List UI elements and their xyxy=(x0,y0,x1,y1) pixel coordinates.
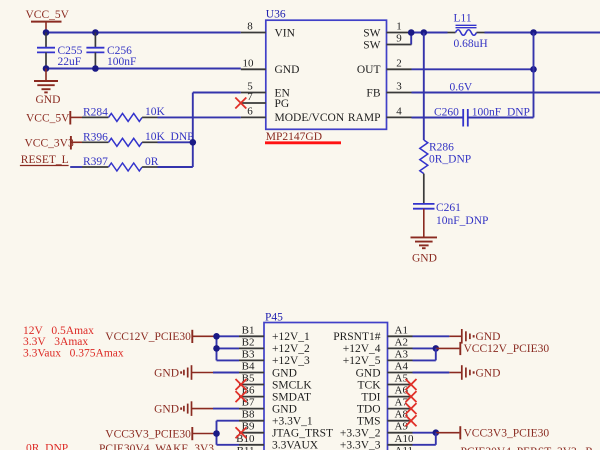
svg-text:VCC3V3_PCIE30: VCC3V3_PCIE30 xyxy=(464,428,550,440)
P45 pin A9 xyxy=(340,421,413,440)
svg-text:PRSNT1#: PRSNT1# xyxy=(333,331,381,343)
wire A9 xyxy=(413,432,436,434)
wire B10 xyxy=(217,444,240,446)
svg-text:A11: A11 xyxy=(395,445,414,450)
svg-text:0R_DNP: 0R_DNP xyxy=(26,443,68,450)
capacitor C255 xyxy=(37,33,83,69)
P45 pin A2 xyxy=(343,336,413,355)
power port GND (A1) xyxy=(449,329,500,344)
svg-text:GND: GND xyxy=(154,367,179,379)
svg-text:JTAG_TRST: JTAG_TRST xyxy=(272,428,333,440)
svg-text:10nF_DNP: 10nF_DNP xyxy=(436,215,488,227)
capacitor C260 xyxy=(434,107,530,127)
wire FB to right edge xyxy=(412,92,600,94)
svg-text:1: 1 xyxy=(396,21,402,33)
junction dot xyxy=(43,65,50,72)
svg-text:+3.3V_3: +3.3V_3 xyxy=(340,440,381,450)
svg-text:GND: GND xyxy=(154,403,179,415)
wire A4 xyxy=(413,372,450,374)
svg-text:3.3Vaux 0.375Amax: 3.3Vaux 0.375Amax xyxy=(23,348,124,360)
svg-text:3: 3 xyxy=(396,81,402,93)
P45 pin B4 xyxy=(239,361,297,380)
svg-text:R396: R396 xyxy=(83,132,108,144)
P45 pin B3 xyxy=(239,348,310,367)
svg-text:0.68uH: 0.68uH xyxy=(454,38,488,50)
svg-text:VCC12V_PCIE30: VCC12V_PCIE30 xyxy=(464,343,550,355)
wire A3 xyxy=(413,359,436,361)
svg-text:SMCLK: SMCLK xyxy=(272,379,312,391)
svg-text:VCC_5V: VCC_5V xyxy=(26,9,70,21)
U36 pin 1 SW xyxy=(363,21,411,40)
svg-text:12V 0.5Amax: 12V 0.5Amax xyxy=(23,325,94,337)
no-connect X on A7 xyxy=(406,403,417,414)
junction dot xyxy=(213,345,220,352)
svg-text:A6: A6 xyxy=(395,385,409,397)
P45 pin B1 xyxy=(239,324,310,343)
junction dot xyxy=(213,333,220,340)
U36 pin 6 MODE/VCON xyxy=(241,105,345,124)
wire GND bottom rail xyxy=(46,68,241,70)
svg-text:3.3V 3Amax: 3.3V 3Amax xyxy=(23,336,88,348)
U36 pin 7 PG xyxy=(241,91,289,110)
svg-text:B1: B1 xyxy=(242,324,255,336)
svg-text:C261: C261 xyxy=(436,202,461,214)
resistor R397 xyxy=(70,156,159,171)
svg-text:SMDAT: SMDAT xyxy=(272,391,311,403)
wire SW down to R286 xyxy=(423,33,425,141)
svg-text:SW: SW xyxy=(363,27,380,39)
svg-text:VIN: VIN xyxy=(275,27,296,39)
P45 pin B6 xyxy=(239,385,311,404)
U36 pin 5 EN xyxy=(241,81,291,100)
no-connect X on A8 xyxy=(406,415,417,426)
P45 pin B8 xyxy=(239,409,313,428)
inductor L11 xyxy=(448,12,488,50)
svg-text:+12V_4: +12V_4 xyxy=(343,343,381,355)
svg-text:RAMP: RAMP xyxy=(348,112,381,124)
svg-text:B11: B11 xyxy=(237,445,255,450)
svg-text:SW: SW xyxy=(363,39,380,51)
wire C260 to output branch xyxy=(468,117,534,119)
svg-text:FB: FB xyxy=(366,87,380,99)
svg-text:TDO: TDO xyxy=(357,403,381,415)
P45 pin A1 xyxy=(333,324,412,343)
wire pin9 to pin1 loop xyxy=(410,33,412,45)
wire B2 xyxy=(217,347,240,349)
ground GND (snubber) xyxy=(411,237,438,264)
svg-text:+12V_1: +12V_1 xyxy=(272,331,310,343)
svg-text:R397: R397 xyxy=(83,156,108,168)
wire EN vertical xyxy=(192,93,194,168)
svg-text:A3: A3 xyxy=(395,348,409,360)
junction dot xyxy=(213,430,220,437)
junction dot xyxy=(92,65,99,72)
P45 pin B7 xyxy=(239,397,297,416)
wire EN to pin 5 xyxy=(193,92,241,94)
resistor R396 xyxy=(82,131,194,146)
svg-text:A1: A1 xyxy=(395,324,408,336)
P45 pin B5 xyxy=(239,373,312,392)
wire L11 to right edge xyxy=(485,32,600,34)
P45 pin B10 xyxy=(236,433,319,450)
wire R286 to C261 xyxy=(423,174,425,204)
wire vertical output branch xyxy=(533,33,535,118)
wire B1-B3 bus xyxy=(216,336,218,360)
junction dot xyxy=(433,345,440,352)
svg-text:PG: PG xyxy=(275,98,290,110)
svg-text:+12V_5: +12V_5 xyxy=(343,355,381,367)
junction dot xyxy=(408,29,415,36)
ground GND (top left) xyxy=(34,69,60,107)
svg-text:GND: GND xyxy=(476,367,501,379)
svg-text:R286: R286 xyxy=(429,142,454,154)
no-connect X on A6 xyxy=(406,391,417,402)
P45 pin A11 (clipped) xyxy=(395,445,414,450)
wire B3 xyxy=(217,359,240,361)
svg-text:A10: A10 xyxy=(395,433,414,445)
svg-text:VCC3V3_PCIE30: VCC3V3_PCIE30 xyxy=(105,428,191,440)
wire B4 xyxy=(213,372,239,374)
svg-text:+12V_2: +12V_2 xyxy=(272,343,310,355)
svg-text:0.6V: 0.6V xyxy=(450,82,473,94)
power port VCC_5V (R284) xyxy=(26,111,82,125)
svg-text:2: 2 xyxy=(396,57,402,69)
svg-text:100nF: 100nF xyxy=(107,56,136,68)
wire A2 xyxy=(413,347,436,349)
svg-text:6: 6 xyxy=(247,105,253,117)
wire R396 to EN node xyxy=(158,141,193,143)
power port VCC_3V3 xyxy=(25,136,83,150)
svg-text:RESET_L: RESET_L xyxy=(21,154,69,166)
svg-text:+12V_3: +12V_3 xyxy=(272,355,310,367)
junction dot xyxy=(421,29,428,36)
U36 pin 2 OUT xyxy=(357,57,412,76)
power port VCC_5V (top) xyxy=(26,9,70,33)
svg-text:9: 9 xyxy=(396,33,402,45)
capacitor C261 xyxy=(413,202,488,227)
connector P45 body xyxy=(264,311,388,450)
wire pin4 to C260 xyxy=(412,117,464,119)
no-connect X on pin 7 xyxy=(235,98,246,109)
svg-text:GND: GND xyxy=(272,403,297,415)
svg-text:P45: P45 xyxy=(265,311,283,323)
svg-text:7: 7 xyxy=(247,91,253,103)
P45 pin A5 xyxy=(358,373,413,392)
no-connect X on B9 xyxy=(236,427,247,438)
U36 pin 10 GND xyxy=(241,57,300,76)
svg-text:MODE/VCON: MODE/VCON xyxy=(275,112,345,124)
svg-text:GND: GND xyxy=(476,331,501,343)
capacitor C256 xyxy=(86,33,136,69)
svg-text:3.3VAUX: 3.3VAUX xyxy=(272,440,319,450)
U36 pin 3 FB xyxy=(366,81,411,100)
svg-text:MP2147GD: MP2147GD xyxy=(266,131,322,143)
P45 pin A4 xyxy=(356,361,413,380)
svg-text:0R: 0R xyxy=(145,156,159,168)
junction dot xyxy=(190,139,197,146)
svg-text:22uF: 22uF xyxy=(58,56,82,68)
svg-text:L11: L11 xyxy=(454,12,472,24)
wire R284 to pin 6 xyxy=(158,116,241,118)
power port VCC12V_PCIE30 (right) xyxy=(436,342,550,355)
svg-text:GND: GND xyxy=(272,367,297,379)
wire A2-A3 bus xyxy=(435,348,437,360)
svg-text:8: 8 xyxy=(247,21,253,33)
junction dot xyxy=(43,29,50,36)
svg-text:10: 10 xyxy=(243,57,255,69)
svg-text:GND: GND xyxy=(412,253,437,265)
junction dot xyxy=(530,29,537,36)
wire B8-B10 bus xyxy=(216,421,218,445)
svg-text:+3.3V_1: +3.3V_1 xyxy=(272,416,313,428)
P45 pin A7 xyxy=(357,397,413,416)
wire B1 xyxy=(217,335,240,337)
svg-text:10K DNP: 10K DNP xyxy=(145,131,194,143)
U36 pin 8 VIN xyxy=(241,21,296,40)
P45 pin A8 xyxy=(357,409,413,428)
power port VCC12V_PCIE30 (left) xyxy=(105,330,215,343)
wire C261 to ground xyxy=(423,209,425,238)
wire A10 xyxy=(413,444,436,446)
svg-text:TCK: TCK xyxy=(358,379,382,391)
svg-text:VCC_5V: VCC_5V xyxy=(26,113,70,125)
svg-text:A9: A9 xyxy=(395,421,409,433)
no-connect X on A5 xyxy=(406,379,417,390)
svg-text:0R_DNP: 0R_DNP xyxy=(429,154,471,166)
svg-text:U36: U36 xyxy=(266,8,286,20)
resistor R284 xyxy=(82,106,166,121)
svg-text:GND: GND xyxy=(275,64,300,76)
svg-text:OUT: OUT xyxy=(357,64,381,76)
wire B7 xyxy=(213,408,239,410)
wire R397 to EN vertical xyxy=(158,166,193,168)
power port GND (B7) xyxy=(154,401,213,416)
svg-text:B3: B3 xyxy=(242,348,255,360)
svg-text:A7: A7 xyxy=(395,397,409,409)
svg-text:4: 4 xyxy=(396,105,402,117)
svg-text:A2: A2 xyxy=(395,336,408,348)
power port GND (A4) xyxy=(449,365,500,380)
P45 pin A10 xyxy=(340,433,414,450)
svg-text:PCIE30V4_PERST 3V3 R: PCIE30V4_PERST 3V3 R xyxy=(461,446,594,450)
power port GND (B4) xyxy=(154,365,213,380)
power port VCC3V3_PCIE30 (left) xyxy=(105,427,215,440)
svg-text:GND: GND xyxy=(36,94,61,106)
P45 pin B9 xyxy=(239,421,333,440)
svg-text:R284: R284 xyxy=(83,107,108,119)
svg-text:GND: GND xyxy=(356,367,381,379)
wire SW rail xyxy=(411,32,447,34)
svg-text:VCC_3V3: VCC_3V3 xyxy=(25,137,74,149)
port RESET_L xyxy=(20,154,69,166)
svg-text:TMS: TMS xyxy=(357,416,381,428)
no-connect X on B5 xyxy=(236,379,247,390)
op-amp U36 body xyxy=(265,8,387,143)
wire A9-A10 bus xyxy=(435,433,437,445)
P45 pin B11 (clipped) xyxy=(237,445,255,450)
svg-text:+3.3V_2: +3.3V_2 xyxy=(340,428,381,440)
svg-text:VCC12V_PCIE30: VCC12V_PCIE30 xyxy=(105,331,191,343)
svg-text:C260: C260 xyxy=(434,107,459,119)
wire OUT xyxy=(412,68,534,70)
P45 pin A6 xyxy=(361,385,412,404)
svg-text:10K: 10K xyxy=(145,106,166,118)
svg-text:A5: A5 xyxy=(395,373,409,385)
annotation current ratings xyxy=(23,325,124,360)
svg-text:B2: B2 xyxy=(242,336,255,348)
wire VIN top rail xyxy=(46,32,241,34)
svg-text:A8: A8 xyxy=(395,409,409,421)
svg-text:B8: B8 xyxy=(242,409,255,421)
svg-text:B4: B4 xyxy=(242,361,255,373)
P45 pin A3 xyxy=(343,348,413,367)
no-connect X on B6 xyxy=(236,391,247,402)
power port VCC3V3_PCIE30 (right) xyxy=(436,426,550,439)
junction dot xyxy=(530,66,537,73)
U36 pin 9 SW xyxy=(363,33,411,52)
wire A1 xyxy=(413,335,450,337)
resistor R286 xyxy=(420,140,471,174)
wire B8 xyxy=(217,420,240,422)
U36 pin 4 RAMP xyxy=(348,105,412,124)
junction dot xyxy=(92,29,99,36)
junction dot xyxy=(433,429,440,436)
svg-text:PCIE30V4_WAKE 3V3: PCIE30V4_WAKE 3V3 xyxy=(99,443,214,450)
P45 pin B2 xyxy=(239,336,310,355)
svg-text:A4: A4 xyxy=(395,361,409,373)
svg-text:TDI: TDI xyxy=(361,391,380,403)
